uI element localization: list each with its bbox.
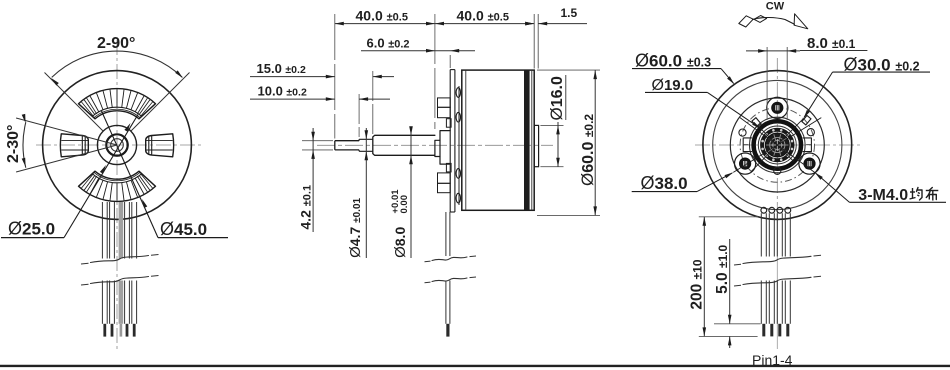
svg-text:Ø8.0: Ø8.0 [392, 227, 409, 258]
svg-text:8.0 ±0.1: 8.0 ±0.1 [807, 35, 856, 52]
svg-text:1.5: 1.5 [561, 6, 578, 20]
svg-text:2-30°: 2-30° [5, 125, 22, 163]
svg-text:10.0 ±0.2: 10.0 ±0.2 [258, 84, 307, 99]
svg-text:Ø25.0: Ø25.0 [8, 219, 55, 239]
svg-text:3-M4.0: 3-M4.0 [858, 187, 908, 204]
svg-text:Ø16.0: Ø16.0 [547, 76, 566, 120]
svg-text:2-90°: 2-90° [97, 35, 135, 52]
svg-text:CW: CW [766, 1, 785, 13]
svg-text:Ø45.0: Ø45.0 [160, 219, 207, 239]
svg-text:15.0 ±0.2: 15.0 ±0.2 [257, 61, 306, 76]
svg-text:0.00: 0.00 [399, 195, 410, 214]
svg-text:200 ±10: 200 ±10 [688, 259, 705, 309]
svg-text:Ø19.0: Ø19.0 [652, 77, 694, 94]
svg-text:5.0 ±1.0: 5.0 ±1.0 [714, 244, 731, 293]
svg-text:6.0 ±0.2: 6.0 ±0.2 [367, 36, 410, 51]
svg-text:Ø38.0: Ø38.0 [641, 173, 688, 193]
